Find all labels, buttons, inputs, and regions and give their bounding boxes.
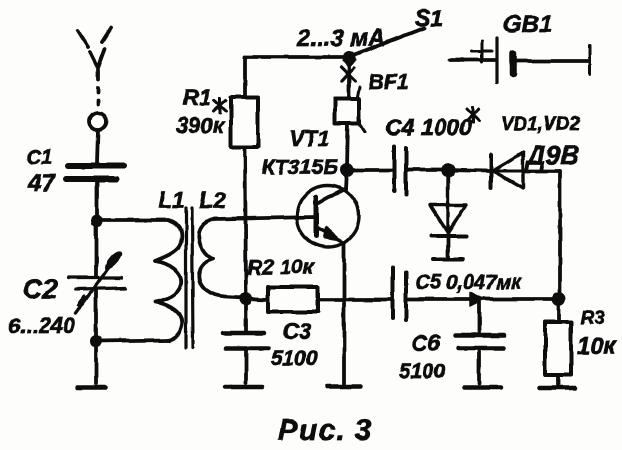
svg-text:GB1: GB1 [503,11,552,38]
svg-text:C3: C3 [283,319,311,344]
svg-text:47: 47 [27,170,56,197]
svg-text:L1: L1 [158,187,185,213]
svg-text:5100: 5100 [399,360,446,383]
svg-text:R3: R3 [580,308,605,329]
svg-text:S1: S1 [415,5,443,31]
svg-text:10к: 10к [577,333,618,360]
svg-text:C2: C2 [23,274,58,304]
svg-text:R1: R1 [183,85,211,110]
svg-text:VT1: VT1 [289,126,329,151]
svg-text:BF1: BF1 [369,71,409,94]
svg-text:R2 10к: R2 10к [247,256,315,279]
svg-text:C4 1000: C4 1000 [385,114,472,140]
svg-text:C6: C6 [411,330,441,356]
svg-text:5100: 5100 [271,347,318,370]
svg-text:КТ315Б: КТ315Б [262,156,338,179]
svg-text:L2: L2 [199,187,226,213]
svg-text:Рис. 3: Рис. 3 [278,414,372,447]
svg-text:2...3 мА: 2...3 мА [296,25,385,52]
svg-text:390к: 390к [176,113,226,138]
svg-text:C1: C1 [26,146,53,169]
svg-text:Д9В: Д9В [525,140,579,170]
svg-text:VD1,VD2: VD1,VD2 [501,114,581,135]
svg-text:C5 0,047мк: C5 0,047мк [415,272,522,294]
svg-text:6...240: 6...240 [8,313,76,338]
